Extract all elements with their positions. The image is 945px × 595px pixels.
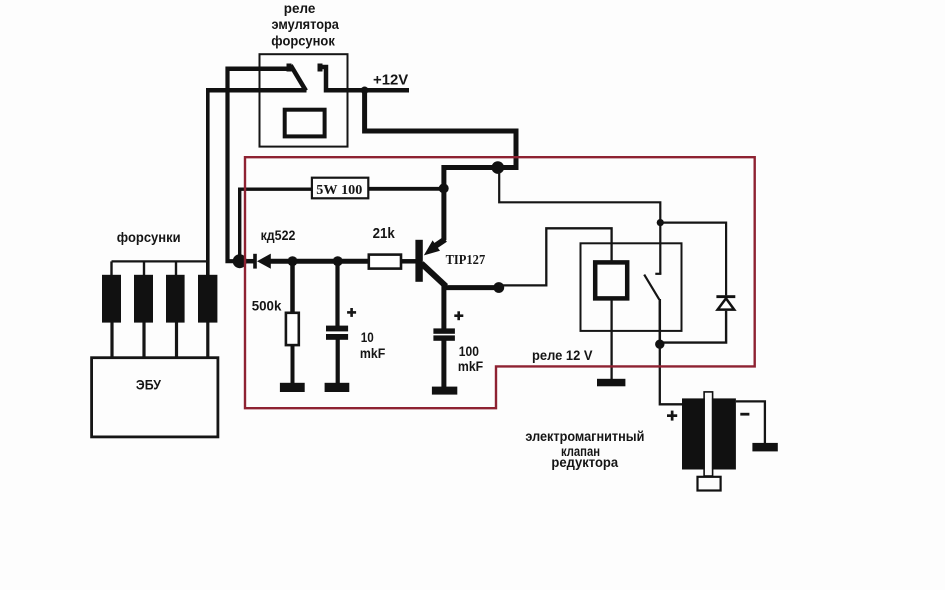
wire branch to flyback diode xyxy=(660,223,726,296)
wire relay pin left to vertical xyxy=(228,67,290,72)
wire +12V feed to emitter rail xyxy=(365,88,516,168)
wire injector stub 3 xyxy=(175,261,177,276)
wire injector pin 2 xyxy=(142,323,145,359)
wire injector stub 1 xyxy=(110,261,112,276)
wire feed to relay contact xyxy=(499,172,660,274)
node relay contact top junction xyxy=(657,219,664,226)
relay contact pin hook xyxy=(655,273,661,275)
label plus C2 xyxy=(454,311,463,320)
wire collector down to 100mkF xyxy=(441,284,446,330)
wire relay right pin hook to +12V node xyxy=(322,67,365,90)
ground 10mkF xyxy=(325,383,350,392)
wire vertical from relay pin down to diode node xyxy=(228,67,237,262)
injector 1 xyxy=(102,275,121,323)
svg-text:500k: 500k xyxy=(252,298,282,314)
svg-text:эмулятора: эмулятора xyxy=(272,16,340,32)
relay K1 switch blade xyxy=(291,65,306,90)
ground valve xyxy=(752,443,777,452)
wire relay output to valve xyxy=(660,344,683,404)
injector 4 xyxy=(198,275,217,323)
relay K1 coil xyxy=(285,110,325,137)
relay 12V box xyxy=(581,243,682,331)
relay 12V coil xyxy=(595,262,627,298)
svg-text:кд522: кд522 xyxy=(261,227,296,243)
resistor 5W 100 xyxy=(312,178,368,199)
label minus valve xyxy=(740,413,749,416)
diode кд522 xyxy=(240,254,271,269)
wire relay common xyxy=(208,88,307,93)
svg-text:электромагнитный: электромагнитный xyxy=(525,428,644,444)
wire vertical relay common down to injector 4 xyxy=(206,88,210,276)
resistor 21k xyxy=(369,255,401,269)
svg-text:форсунки: форсунки xyxy=(117,229,181,245)
node diode cathode junction xyxy=(233,254,247,268)
relay K1 contact pin left xyxy=(287,64,292,72)
wire injector stub 2 xyxy=(143,261,145,276)
ground relay coil xyxy=(597,379,625,387)
ground 100mkF xyxy=(432,387,457,395)
resistor 500k xyxy=(286,313,299,345)
wire 100mkF to ground xyxy=(441,339,446,388)
wire 500k to ground xyxy=(291,345,295,383)
label реле эмулятора форсунок xyxy=(271,0,339,48)
svg-text:ЭБУ: ЭБУ xyxy=(136,376,161,392)
ECU box ЭБУ xyxy=(92,358,218,437)
red boundary box xyxy=(245,157,755,408)
wire +12V stub xyxy=(365,88,409,93)
wire 21k to base xyxy=(401,259,416,264)
svg-text:100: 100 xyxy=(459,343,479,359)
wire 5W100 left to diode node xyxy=(240,189,312,261)
wire base bus xyxy=(270,259,370,264)
svg-text:21k: 21k xyxy=(373,226,396,242)
injector 3 xyxy=(166,275,185,323)
node 5W100 right junction xyxy=(439,183,449,193)
svg-text:форсунок: форсунок xyxy=(271,33,335,49)
wire 500k drop xyxy=(290,261,295,314)
solenoid valve foot xyxy=(698,477,721,491)
node collector junction xyxy=(493,282,504,293)
svg-text:редуктора: редуктора xyxy=(551,454,618,470)
relay 12V switch blade xyxy=(644,275,659,300)
node relay output junction xyxy=(655,340,664,349)
wire relay coil to ground xyxy=(610,300,612,379)
wire valve right to ground xyxy=(736,401,765,443)
node emitter rail junction xyxy=(492,161,505,174)
wire collector node to relay coil xyxy=(499,228,612,285)
label plus valve xyxy=(667,411,677,421)
node +12V junction xyxy=(361,87,369,95)
label plus C1 xyxy=(347,308,356,317)
capacitor C2 100mkF xyxy=(433,328,455,340)
solenoid valve core xyxy=(704,392,713,476)
label электромагнитный клапан редуктора xyxy=(525,428,644,470)
wire collector out horizontal xyxy=(443,285,499,290)
wire injector pin 4 xyxy=(206,323,209,359)
svg-text:реле 12 V: реле 12 V xyxy=(532,347,593,363)
injector 2 xyxy=(134,275,153,323)
wire flyback diode bottom to contact node xyxy=(660,311,726,343)
wire 10mkF to ground xyxy=(336,339,340,384)
ground 500k xyxy=(280,383,305,392)
diode flyback VD2 xyxy=(716,295,735,309)
wire emitter rail vertical xyxy=(441,165,446,240)
node 10mkF junction xyxy=(333,256,343,266)
wire 10mkF drop xyxy=(335,261,339,326)
svg-text:5W 100: 5W 100 xyxy=(316,183,362,198)
solenoid valve right block xyxy=(712,398,736,469)
relay K1 emulator box xyxy=(260,54,348,146)
label 100 mkF xyxy=(458,343,484,374)
wire injector top bus xyxy=(112,260,209,262)
wire 5W100 right to emitter rail xyxy=(368,187,446,191)
wire injector pin 3 xyxy=(175,323,178,359)
svg-text:mkF: mkF xyxy=(458,358,484,374)
svg-text:mkF: mkF xyxy=(360,345,386,361)
svg-text:реле: реле xyxy=(284,0,316,16)
transistor Q1 TIP127 xyxy=(415,239,446,286)
node 500k junction xyxy=(288,256,298,266)
wire injector pin 1 xyxy=(110,323,113,359)
label 10 mkF xyxy=(360,329,386,361)
svg-text:10: 10 xyxy=(361,329,374,345)
wire relay common down xyxy=(659,299,662,345)
relay K1 contact pin right xyxy=(318,64,323,72)
svg-text:+12V: +12V xyxy=(373,73,409,89)
capacitor C1 10mkF xyxy=(326,326,348,340)
solenoid valve left block xyxy=(682,398,705,469)
svg-text:TIP127: TIP127 xyxy=(446,253,486,268)
